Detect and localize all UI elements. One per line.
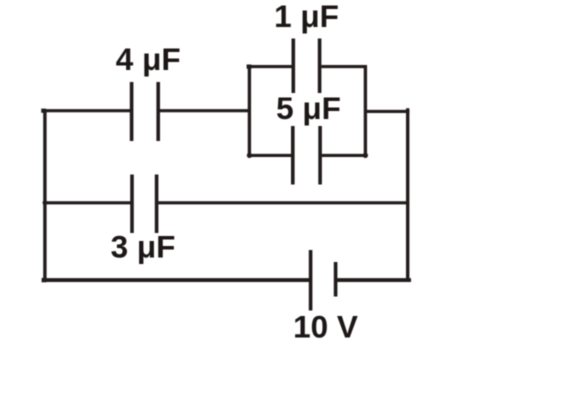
wire left rail bbox=[43, 109, 46, 282]
capacitor 5uF plates bbox=[293, 126, 320, 185]
svg-text:4 μF: 4 μF bbox=[116, 41, 181, 77]
wire box bottom edge (interrupted by C5) bbox=[248, 154, 367, 157]
node C (box bottom-right junction dot) bbox=[363, 153, 368, 158]
wire battery to bottom right corner bbox=[337, 278, 411, 282]
node D (left rail / middle wire junction dot) bbox=[43, 200, 48, 205]
wire middle branch left bbox=[45, 201, 131, 204]
label 1 uF bbox=[274, 0, 339, 34]
capacitor 3uF plates bbox=[132, 175, 157, 234]
label 3 uF bbox=[111, 228, 176, 264]
label 10 V bbox=[293, 309, 358, 345]
wire C4 to parallel box bbox=[160, 109, 251, 112]
battery V1 long plate bbox=[309, 250, 313, 311]
battery V1 short plate bbox=[334, 262, 338, 297]
svg-text:1 μF: 1 μF bbox=[274, 0, 339, 34]
label 4 uF bbox=[116, 41, 181, 77]
node A (top-left corner tick) bbox=[41, 109, 46, 113]
wire box top edge (interrupted by C1) bbox=[248, 65, 367, 68]
label 5 uF bbox=[276, 90, 341, 126]
wire top-left to C4 bbox=[43, 109, 131, 112]
wire middle branch right bbox=[158, 201, 409, 204]
wire box to right rail bbox=[365, 110, 409, 113]
wire bottom left to battery bbox=[43, 278, 309, 282]
capacitor 1uF plates bbox=[293, 39, 319, 94]
svg-text:3 μF: 3 μF bbox=[111, 228, 176, 264]
wire box left edge bbox=[247, 65, 252, 155]
wire box right edge bbox=[364, 65, 367, 155]
svg-text:10 V: 10 V bbox=[293, 309, 358, 345]
capacitor 4uF plates bbox=[132, 82, 159, 141]
svg-text:5 μF: 5 μF bbox=[276, 90, 341, 126]
node B (box bottom-left junction dot) bbox=[247, 153, 252, 158]
node E (bottom-left corner tick) bbox=[42, 278, 47, 282]
wire right rail bbox=[406, 108, 409, 281]
